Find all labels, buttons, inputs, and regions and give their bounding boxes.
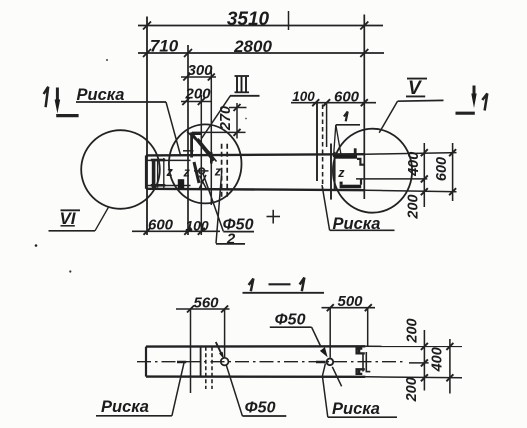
- svg-text:z: z: [214, 165, 222, 179]
- svg-text:Риска: Риска: [332, 400, 380, 418]
- svg-text:2: 2: [226, 231, 236, 248]
- svg-text:600: 600: [434, 157, 450, 181]
- svg-text:600: 600: [334, 89, 360, 106]
- svg-text:710: 710: [150, 36, 179, 55]
- svg-text:Риска: Риска: [101, 398, 149, 416]
- svg-text:3510: 3510: [227, 9, 270, 30]
- svg-text:300: 300: [187, 62, 213, 79]
- svg-text:Φ50: Φ50: [275, 312, 306, 329]
- svg-text:200: 200: [184, 86, 211, 103]
- svg-text:z: z: [337, 166, 345, 180]
- svg-text:2800: 2800: [233, 37, 272, 56]
- svg-text:200: 200: [406, 194, 422, 219]
- svg-text:500: 500: [337, 293, 363, 310]
- svg-text:200: 200: [404, 377, 420, 402]
- svg-text:200: 200: [405, 318, 421, 343]
- svg-text:100: 100: [185, 218, 209, 234]
- svg-text:100: 100: [292, 89, 315, 104]
- svg-text:400: 400: [430, 347, 446, 372]
- svg-text:600: 600: [148, 217, 174, 234]
- svg-text:400: 400: [406, 152, 422, 177]
- svg-text:z: z: [183, 166, 191, 180]
- svg-text:Φ50: Φ50: [245, 400, 276, 417]
- svg-text:560: 560: [193, 295, 219, 312]
